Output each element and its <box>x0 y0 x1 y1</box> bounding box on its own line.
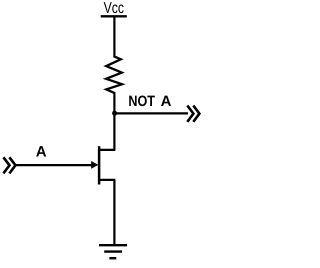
resistor R1 <box>106 57 122 93</box>
transistor Q1 drain stub <box>99 149 115 151</box>
svg-text:Vcc: Vcc <box>104 0 124 17</box>
input connector chevron <box>3 157 15 173</box>
transistor Q1 gate bar <box>98 146 101 184</box>
wire source to ground <box>113 180 115 245</box>
wire input connector to gate <box>16 164 93 166</box>
transistor Q1 source stub <box>99 179 115 181</box>
ground symbol <box>99 245 127 258</box>
svg-text:A: A <box>161 93 172 110</box>
svg-text:A: A <box>36 143 47 160</box>
output connector chevron <box>187 106 199 122</box>
arrowhead at gate of Q1 <box>91 161 98 169</box>
svg-text:NOT: NOT <box>128 93 155 110</box>
power rail Vcc bar <box>101 15 127 17</box>
wire Vcc rail to resistor R1 <box>113 16 115 57</box>
node junction dot (drain / R1 / output) <box>112 111 117 116</box>
wire drain to node <box>113 113 115 150</box>
wire R1 to output node <box>113 92 115 113</box>
wire node to output connector <box>115 112 188 114</box>
